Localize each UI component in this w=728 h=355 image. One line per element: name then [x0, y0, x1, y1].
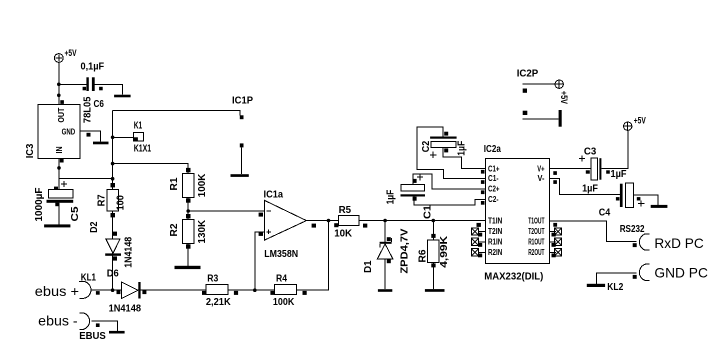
svg-text:K1: K1	[134, 121, 143, 132]
svg-text:R1IN: R1IN	[488, 237, 502, 246]
node R3/R4 junction	[253, 288, 257, 292]
connector ebus- EBUS	[38, 312, 117, 342]
node below C6 tap	[57, 94, 61, 98]
wire IC3 IN down and to rail	[59, 159, 113, 190]
svg-text:+5V: +5V	[634, 116, 646, 126]
wire ebus+ to rail	[92, 289, 113, 291]
ground (C4)	[651, 205, 668, 208]
svg-text:EBUS: EBUS	[79, 331, 106, 342]
svg-text:+5V: +5V	[65, 48, 77, 58]
svg-text:IN: IN	[55, 146, 64, 153]
wire to C6	[59, 83, 87, 85]
svg-text:C4: C4	[599, 207, 611, 218]
pin pads IC2a left	[481, 170, 485, 174]
svg-text:R3: R3	[207, 273, 218, 284]
svg-text:T2OUT: T2OUT	[528, 227, 544, 236]
voltage regulator IC3 78L05	[25, 96, 94, 162]
svg-text:IC1a: IC1a	[264, 189, 284, 200]
svg-text:ZPD4,7V: ZPD4,7V	[400, 228, 411, 273]
svg-text:T2IN: T2IN	[488, 227, 502, 236]
ground (C5)	[44, 224, 70, 227]
svg-text:ebus -: ebus -	[38, 312, 78, 328]
svg-text:OUT: OUT	[57, 108, 66, 123]
wire V+ to C3	[550, 168, 591, 170]
svg-text:C3: C3	[584, 147, 597, 158]
wire C6 to ground	[95, 84, 123, 94]
wire op-amp output to R5	[306, 220, 338, 222]
svg-text:C5: C5	[70, 206, 81, 221]
pin T2IN no-connect	[479, 231, 486, 233]
svg-text:1µF: 1µF	[611, 169, 627, 180]
svg-text:4,99K: 4,99K	[439, 235, 450, 268]
svg-text:IC1P: IC1P	[232, 96, 253, 107]
svg-text:KL2: KL2	[607, 282, 623, 293]
node R1/R2 junction	[186, 209, 190, 213]
svg-text:T1IN: T1IN	[488, 216, 502, 225]
svg-text:K1X1: K1X1	[134, 144, 152, 155]
svg-text:IC3: IC3	[25, 143, 36, 158]
wire R2 to ground	[187, 244, 189, 266]
resistor R6 4,99K	[418, 221, 451, 290]
wire main vertical rail	[112, 111, 114, 291]
ground (EBUS)	[109, 331, 125, 334]
node C6 tap	[57, 83, 61, 87]
svg-text:R4: R4	[276, 273, 287, 284]
ground (KL2)	[587, 284, 605, 287]
capacitor C5 1000uF	[34, 181, 81, 222]
wire R1 to R2	[187, 198, 189, 220]
wire +5V to IC3 OUT	[58, 62, 60, 104]
node D1 junction	[383, 219, 387, 223]
connector K1 K1X1	[133, 121, 151, 155]
connector KL1 ebus+	[35, 273, 97, 299]
capacitor C3 1uF	[579, 147, 627, 195]
svg-text:C2+: C2+	[488, 185, 500, 194]
svg-text:V+: V+	[537, 164, 545, 173]
svg-text:10K: 10K	[334, 229, 353, 240]
svg-text:R6: R6	[418, 249, 429, 262]
pin R2IN no-connect	[479, 251, 486, 253]
connector RxD PC	[639, 234, 703, 251]
svg-text:R7: R7	[97, 194, 108, 206]
svg-text:D2: D2	[89, 221, 100, 233]
node R1 branch	[111, 162, 115, 166]
zener diode D1 ZPD4,7V	[363, 221, 411, 290]
svg-text:2,21K: 2,21K	[206, 297, 232, 308]
pin T2OUT no-connect	[550, 231, 556, 233]
ground (IC1P)	[231, 174, 249, 177]
svg-text:C1+: C1+	[488, 164, 500, 173]
wire C1 top to C2+ pin	[413, 174, 486, 189]
svg-text:MAX232(DIL): MAX232(DIL)	[484, 271, 543, 282]
wire C2 bottom to C1+ pin	[443, 147, 486, 168]
wire to K1	[113, 136, 134, 138]
resistor R4 100K	[270, 273, 306, 308]
svg-text:RxD PC: RxD PC	[654, 235, 703, 251]
svg-text:IC2P: IC2P	[517, 68, 539, 79]
wire to op-amp inverting input	[188, 210, 264, 212]
svg-text:1µF: 1µF	[582, 183, 598, 194]
wire C3 to +5V	[601, 130, 628, 168]
svg-text:R5: R5	[339, 205, 352, 216]
svg-text:R1: R1	[169, 177, 180, 190]
svg-text:C2: C2	[421, 140, 432, 152]
svg-text:GND PC: GND PC	[654, 265, 708, 281]
svg-text:R2IN: R2IN	[488, 248, 502, 257]
svg-text:1000µF: 1000µF	[34, 188, 45, 222]
svg-text:D1: D1	[363, 260, 374, 273]
resistor R2 130K	[169, 214, 208, 249]
resistor R1 100K	[169, 168, 208, 203]
svg-text:1N4148: 1N4148	[109, 303, 142, 314]
svg-text:C1: C1	[423, 205, 434, 219]
wire C1 bottom to C2- pin	[414, 197, 486, 205]
svg-text:1N4148: 1N4148	[124, 236, 135, 267]
diode D6 1N4148	[109, 282, 147, 314]
wire top rail to IC1P	[113, 111, 240, 116]
ground (R2)	[175, 266, 201, 269]
svg-text:0,1µF: 0,1µF	[81, 61, 105, 72]
node rail-C5 junction	[111, 177, 115, 181]
svg-text:R2OUT: R2OUT	[528, 248, 544, 257]
svg-text:KL1: KL1	[81, 273, 97, 284]
svg-text:100K: 100K	[273, 297, 295, 308]
resistor R3 2,21K	[202, 273, 238, 308]
svg-text:RS232: RS232	[620, 224, 645, 235]
ground (IC2P vertical bar)	[559, 110, 562, 127]
wire C4 to ground	[634, 195, 659, 205]
wire ebus line to R3	[113, 289, 329, 291]
node R6 junction	[432, 219, 436, 223]
op-amp IC1a LM358N	[264, 189, 307, 260]
wire T1OUT to RxD PC	[550, 221, 637, 242]
supply +5V (top left)	[54, 48, 76, 62]
node feedback junction	[327, 219, 331, 223]
svg-text:100: 100	[116, 195, 127, 211]
resistor R7 100	[97, 183, 127, 217]
svg-text:T1OUT: T1OUT	[528, 216, 544, 225]
wire GND PC to KL2 ground	[597, 273, 637, 284]
wire C5 to ground	[58, 203, 60, 225]
node K1 junction	[111, 136, 115, 140]
pin R1OUT no-connect	[550, 241, 556, 243]
ground (D1)	[378, 289, 392, 292]
capacitor C1 1uF	[386, 174, 426, 204]
svg-text:78L05: 78L05	[83, 96, 94, 123]
svg-text:GND: GND	[62, 127, 76, 136]
ground (R6)	[425, 289, 445, 292]
svg-text:130K: 130K	[197, 219, 208, 243]
svg-text:C6: C6	[94, 99, 105, 110]
wire V- to C4	[550, 178, 620, 194]
wire IC3 GND to ground	[80, 131, 100, 142]
pin R1IN no-connect	[479, 241, 486, 243]
capacitor C2 1uF	[421, 132, 468, 158]
capacitor C4 1uF	[599, 183, 645, 218]
wire junction to op-amp non-inverting input	[255, 232, 264, 290]
ground (C6)	[114, 95, 131, 98]
pin R2OUT no-connect	[550, 251, 556, 253]
IC2a MAX232(DIL)	[484, 144, 550, 282]
svg-text:LM358N: LM358N	[264, 249, 298, 260]
connector GND PC	[639, 264, 708, 281]
svg-text:R2: R2	[169, 223, 180, 236]
svg-text:C2-: C2-	[488, 195, 499, 204]
svg-text:C1-: C1-	[488, 174, 499, 183]
resistor R5 10K	[334, 205, 367, 240]
diode D2 1N4148	[89, 221, 135, 279]
svg-text:R1OUT: R1OUT	[528, 237, 544, 246]
node ebus+ junction	[111, 288, 115, 292]
wire to R1	[113, 164, 189, 174]
svg-text:V-: V-	[538, 174, 545, 183]
svg-text:1µF: 1µF	[386, 190, 397, 205]
wire R4 to feedback riser	[297, 221, 329, 291]
svg-text:ebus +: ebus +	[35, 283, 79, 299]
wire R5 to T1IN	[359, 220, 486, 222]
svg-text:IC2a: IC2a	[484, 144, 501, 155]
svg-text:1µF: 1µF	[457, 141, 468, 156]
supply +5V (right)	[624, 116, 646, 131]
node IN pin	[57, 166, 61, 170]
capacitor C6 0,1uF	[81, 61, 105, 110]
svg-text:D6: D6	[107, 269, 119, 280]
ground (IC3 GND)	[93, 142, 109, 145]
power pin IC2P	[517, 68, 569, 119]
power pin IC1P	[232, 96, 253, 175]
svg-text:100K: 100K	[197, 173, 208, 197]
wire C2 top to C1- pin	[417, 127, 486, 178]
svg-text:+5V: +5V	[559, 91, 569, 104]
